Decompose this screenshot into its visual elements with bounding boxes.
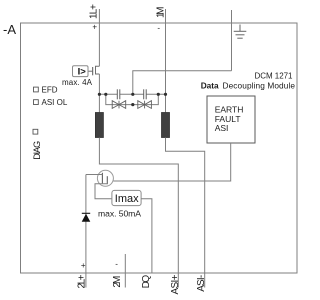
terminal 1L+ [98, 9, 100, 66]
resistor R1 [95, 113, 103, 138]
terminal 1M [165, 9, 167, 113]
diode V3 [82, 213, 91, 221]
wire ladder main line [99, 93, 165, 95]
svg-text:ASI OL: ASI OL [42, 98, 68, 107]
svg-text:+: + [92, 23, 97, 32]
svg-text:-: - [157, 24, 160, 33]
wire earth riser to FE terminal [133, 71, 232, 95]
svg-text:1M: 1M [155, 7, 166, 19]
svg-text:-A: -A [3, 22, 16, 37]
svg-text:ASI: ASI [215, 123, 229, 133]
wire gate of Q2 from 2L+ branch [86, 174, 103, 176]
wire TVS lower path [106, 94, 159, 104]
svg-text:Data: Data [201, 80, 219, 90]
svg-text:Decoupling Module: Decoupling Module [223, 80, 296, 90]
wire R1 to ASI+ [99, 138, 178, 288]
svg-text:-: - [115, 260, 118, 269]
capacitor C1 [117, 89, 120, 99]
svg-text:2L+: 2L+ [76, 274, 87, 288]
ground [234, 25, 247, 39]
status checkbox DIAG [33, 129, 38, 134]
svg-text:ASI+: ASI+ [170, 274, 181, 294]
EARTH FAULT ASI box U2 [207, 96, 255, 143]
status checkbox ASI OL [34, 100, 39, 105]
junction dots [98, 93, 167, 106]
wire 1L+ column to resistor [98, 74, 100, 113]
wire Q2 to Imax box [95, 184, 112, 199]
wire 2L+ branch [85, 175, 87, 288]
current regulator U3 Imax box [112, 190, 141, 205]
status checkbox EFD [34, 87, 39, 92]
wire R2 to ASI- [166, 138, 205, 288]
svg-text:max. 4A: max. 4A [62, 78, 93, 87]
svg-text:EFD: EFD [42, 85, 58, 94]
wire EARTH FAULT box to transistor Q2 [113, 143, 230, 181]
TVS diode pair V1 [112, 101, 126, 109]
svg-text:2M: 2M [112, 276, 123, 288]
terminal 2M stub [124, 254, 126, 288]
transistor Q1 (current limiter pass element) [88, 66, 99, 75]
svg-text:1L+: 1L+ [88, 4, 99, 19]
svg-text:Imax: Imax [115, 193, 139, 205]
svg-text:ASI-: ASI- [196, 275, 207, 292]
svg-text:DCM 1271: DCM 1271 [255, 72, 294, 81]
TVS diode pair V2 [138, 101, 152, 109]
module frame -A box [21, 23, 298, 273]
svg-text:+: + [81, 261, 86, 270]
capacitor C2 [144, 89, 147, 99]
wire Imax to DQ [141, 199, 152, 273]
svg-text:DIAG: DIAG [32, 141, 42, 160]
svg-text:DQ: DQ [141, 275, 152, 289]
terminal FE (unlabeled) [231, 10, 233, 71]
resistor R2 [162, 113, 170, 138]
svg-text:I>: I> [78, 67, 87, 78]
svg-text:max. 50mA: max. 50mA [98, 208, 141, 218]
current sensor U1 I> box [73, 66, 89, 77]
transistor Q2 (current source) [97, 170, 113, 186]
